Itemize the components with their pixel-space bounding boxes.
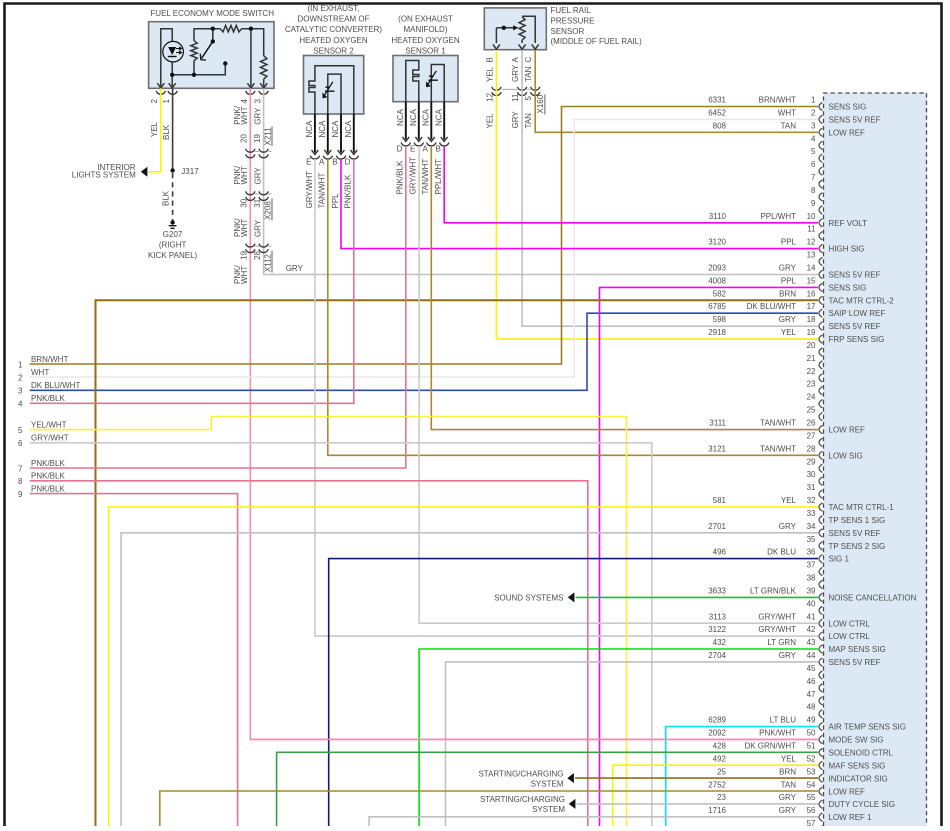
svg-text:GRY/WHT: GRY/WHT <box>31 434 69 443</box>
svg-text:2701: 2701 <box>708 522 726 531</box>
svg-text:LIGHTS SYSTEM: LIGHTS SYSTEM <box>72 171 136 180</box>
svg-text:FUEL RAIL: FUEL RAIL <box>551 6 592 15</box>
svg-text:3120: 3120 <box>708 238 726 247</box>
svg-text:22: 22 <box>807 367 816 376</box>
svg-text:PPL/WHT: PPL/WHT <box>434 159 443 195</box>
svg-text:PNK/BLK: PNK/BLK <box>31 472 65 481</box>
PCM connector C2 box <box>824 93 927 826</box>
svg-text:LT GRN/BLK: LT GRN/BLK <box>750 587 797 596</box>
svg-text:3: 3 <box>811 121 816 130</box>
svg-text:5: 5 <box>811 147 816 156</box>
PCM pin 5 <box>811 147 822 162</box>
PCM pin 22 <box>807 367 823 382</box>
PCM pin 28 <box>708 444 863 460</box>
wire 4008 PPL PCM pin 15 to bottom <box>600 287 819 827</box>
svg-text:31: 31 <box>253 198 262 207</box>
fuel rail pressure sensor box <box>484 8 546 50</box>
PCM pin 57 <box>807 819 823 831</box>
svg-text:X112: X112 <box>263 253 272 272</box>
svg-text:1: 1 <box>18 360 23 369</box>
svg-text:FRP SENS SIG: FRP SENS SIG <box>829 335 885 344</box>
svg-text:NCA: NCA <box>318 120 327 138</box>
wire PNK/BLK connector stub 9 to bottom <box>30 494 238 827</box>
svg-text:(ON EXHAUST: (ON EXHAUST <box>398 15 453 24</box>
PCM pin 56 <box>708 806 872 822</box>
svg-text:4: 4 <box>18 400 23 409</box>
svg-text:20: 20 <box>807 341 816 350</box>
svg-text:PNK/BLK: PNK/BLK <box>31 394 65 403</box>
PCM pin 39 <box>708 587 916 603</box>
svg-text:B: B <box>486 57 495 62</box>
svg-text:X211: X211 <box>263 127 272 146</box>
svg-text:PPL: PPL <box>781 238 797 247</box>
svg-text:54: 54 <box>807 780 816 789</box>
svg-text:GRY: GRY <box>779 651 797 660</box>
wire 1716 GRY PCM pin 56 from bottom <box>369 817 818 827</box>
fuel economy mode switch box <box>149 22 274 89</box>
svg-text:19: 19 <box>807 328 816 337</box>
svg-text:8: 8 <box>811 186 816 195</box>
svg-text:24: 24 <box>807 393 816 402</box>
svg-text:582: 582 <box>713 289 727 298</box>
svg-text:496: 496 <box>713 548 727 557</box>
svg-text:44: 44 <box>807 651 816 660</box>
switch junction dots <box>170 73 174 77</box>
wire 432 LT GRN PCM pin 43 to bottom <box>419 649 818 827</box>
svg-text:NCA: NCA <box>396 108 405 126</box>
svg-text:1: 1 <box>811 96 816 105</box>
svg-text:KICK PANEL): KICK PANEL) <box>148 251 198 260</box>
svg-text:PNK/BLK: PNK/BLK <box>396 160 405 194</box>
svg-text:TAC MTR CTRL-1: TAC MTR CTRL-1 <box>829 503 895 512</box>
svg-text:TAN/WHT: TAN/WHT <box>421 159 430 195</box>
svg-text:SENS 5V REF: SENS 5V REF <box>829 529 881 538</box>
PCM pin 16 <box>713 289 895 305</box>
wire 496 DK BLU PCM pin 36 to bottom <box>329 559 818 827</box>
wire 25 BRN starting/charging to PCM pin 53 <box>575 777 818 779</box>
svg-text:X160: X160 <box>536 94 545 113</box>
svg-text:YEL: YEL <box>486 66 495 82</box>
wire PNK/BLK sensor 1 D to connector stub 7 <box>30 146 406 468</box>
svg-text:BRN/WHT: BRN/WHT <box>759 96 796 105</box>
PCM pin 8 <box>811 186 822 201</box>
wire PNK/WHT 2092 <box>250 88 818 739</box>
svg-text:WHT: WHT <box>240 106 249 124</box>
switch movable contact arm <box>202 41 213 58</box>
svg-text:2: 2 <box>150 99 159 104</box>
wire 6785 DK BLU/WHT PCM pin 17 to connector stub 3 <box>30 313 818 390</box>
svg-text:23: 23 <box>717 793 726 802</box>
svg-text:808: 808 <box>713 121 727 130</box>
PCM pin 6 <box>811 160 822 175</box>
svg-text:7: 7 <box>18 464 23 473</box>
sound systems arrow <box>568 592 575 602</box>
svg-text:2: 2 <box>811 108 816 117</box>
ground G207 <box>170 220 174 224</box>
svg-text:MANIFOLD): MANIFOLD) <box>404 25 448 34</box>
PCM pin 14 <box>708 264 880 280</box>
svg-text:50: 50 <box>807 729 816 738</box>
wire 581 YEL PCM pin 32 from bottom <box>109 507 818 827</box>
svg-text:9: 9 <box>811 199 816 208</box>
svg-text:4: 4 <box>240 99 249 104</box>
wire 2918 YEL fuel rail B to PCM pin 19 <box>496 50 818 339</box>
svg-text:LOW REF: LOW REF <box>829 426 866 435</box>
svg-text:TP SENS 1 SIG: TP SENS 1 SIG <box>829 516 886 525</box>
svg-text:AIR TEMP SENS SIG: AIR TEMP SENS SIG <box>829 723 907 732</box>
wire 6452 WHT PCM pin 2 to connector stub 2 <box>30 119 818 377</box>
PCM pin 29 <box>807 457 823 472</box>
svg-text:PNK/WHT: PNK/WHT <box>759 729 796 738</box>
svg-text:15: 15 <box>807 276 816 285</box>
wire 2704 GRY PCM pin 44 to bottom <box>446 662 819 827</box>
svg-text:SENSOR 1: SENSOR 1 <box>405 47 446 56</box>
svg-text:4008: 4008 <box>708 276 726 285</box>
wire 3111 TAN/WHT sensor 1 A to PCM pin 26 <box>431 146 818 430</box>
svg-text:428: 428 <box>713 742 727 751</box>
svg-text:LOW REF 1: LOW REF 1 <box>829 813 873 822</box>
svg-text:47: 47 <box>807 690 816 699</box>
PCM pin 7 <box>811 173 822 188</box>
svg-text:MAP SENS SIG: MAP SENS SIG <box>829 645 886 654</box>
svg-text:MAF SENS SIG: MAF SENS SIG <box>829 761 886 770</box>
PCM pin 49 <box>708 716 906 732</box>
wire PNK/BLK connector stub 8 to bottom <box>30 481 588 827</box>
svg-text:3633: 3633 <box>708 587 726 596</box>
svg-text:46: 46 <box>807 677 816 686</box>
svg-text:GRY/WHT: GRY/WHT <box>409 157 418 195</box>
svg-text:HEATED OXYGEN: HEATED OXYGEN <box>299 36 368 45</box>
switch pin exit arrows <box>157 83 164 88</box>
wire 2752 TAN PCM pin 54 to bottom left <box>160 791 818 827</box>
PCM pin 38 <box>807 574 823 589</box>
svg-text:SENS 5V REF: SENS 5V REF <box>829 322 881 331</box>
svg-text:NCA: NCA <box>344 120 353 138</box>
svg-text:NCA: NCA <box>434 108 443 126</box>
svg-text:23: 23 <box>807 380 816 389</box>
PCM pin 24 <box>807 393 823 408</box>
sensor 1 variable sensing element <box>426 71 436 87</box>
svg-text:3: 3 <box>18 387 23 396</box>
svg-text:SENS SIG: SENS SIG <box>829 103 867 112</box>
PCM pin 10 <box>709 212 867 228</box>
svg-text:A: A <box>319 157 325 166</box>
svg-text:WHT: WHT <box>240 166 249 184</box>
svg-text:X208: X208 <box>263 201 272 220</box>
svg-text:45: 45 <box>807 664 816 673</box>
svg-text:NCA: NCA <box>331 120 340 138</box>
PCM pin 18 <box>713 315 881 331</box>
svg-text:SOUND SYSTEMS: SOUND SYSTEMS <box>494 594 563 603</box>
svg-text:GRY: GRY <box>286 264 304 273</box>
svg-text:SOLENOID CTRL: SOLENOID CTRL <box>829 749 894 758</box>
svg-text:GRY: GRY <box>254 107 263 125</box>
svg-text:HEATED OXYGEN: HEATED OXYGEN <box>391 36 460 45</box>
heated oxygen sensor 2 box <box>304 56 364 115</box>
svg-text:MODE SW SIG: MODE SW SIG <box>829 736 884 745</box>
svg-text:39: 39 <box>807 587 816 596</box>
LED indicator inside switch <box>163 41 184 62</box>
svg-text:38: 38 <box>807 574 816 583</box>
wire YEL switch to interior lights <box>149 88 161 172</box>
svg-text:SENS 5V REF: SENS 5V REF <box>829 271 881 280</box>
wire 6331 BRN/WHT PCM pin 1 to connector stub 1 <box>30 107 818 365</box>
PCM pin 31 <box>807 483 823 498</box>
PCM pin 15 <box>708 276 866 292</box>
svg-text:18: 18 <box>807 315 816 324</box>
svg-text:2918: 2918 <box>708 328 726 337</box>
sensor 1 pigtail black wires with NCA labels <box>405 102 407 140</box>
wire 492 YEL PCM pin 52 to bottom <box>613 765 818 827</box>
svg-text:SYSTEM: SYSTEM <box>532 805 565 814</box>
svg-text:11: 11 <box>807 225 816 234</box>
svg-text:NOISE CANCELLATION: NOISE CANCELLATION <box>829 594 917 603</box>
svg-text:28: 28 <box>807 444 816 453</box>
interior lights system arrow <box>141 167 148 177</box>
PCM pin 3 <box>713 121 865 137</box>
svg-text:B: B <box>332 157 337 166</box>
PCM pin 37 <box>807 561 823 576</box>
svg-text:STARTING/CHARGING: STARTING/CHARGING <box>480 795 565 804</box>
sensor 2 internal heater loop <box>309 66 354 114</box>
svg-text:432: 432 <box>713 638 727 647</box>
PCM pin 32 <box>713 496 895 512</box>
svg-text:GRY: GRY <box>511 64 520 82</box>
PCM pin 53 <box>717 767 888 783</box>
switch internal wiring <box>161 29 264 86</box>
svg-text:13: 13 <box>807 251 816 260</box>
svg-text:CATALYTIC CONVERTER): CATALYTIC CONVERTER) <box>285 25 383 34</box>
sensor 2 pigtail black wires with NCA labels <box>314 114 316 153</box>
svg-text:17: 17 <box>807 302 816 311</box>
wire GRY/WHT sensor 1 E to PCM pin 41 <box>419 146 818 623</box>
PCM pin 43 <box>713 638 886 654</box>
wire BLK dashed <box>172 173 174 221</box>
svg-text:BRN: BRN <box>779 289 796 298</box>
svg-text:43: 43 <box>807 638 816 647</box>
svg-text:3110: 3110 <box>709 212 727 221</box>
svg-text:A: A <box>511 57 520 63</box>
svg-text:GRY: GRY <box>254 219 263 237</box>
svg-text:21: 21 <box>807 354 816 363</box>
svg-text:TAN/WHT: TAN/WHT <box>760 444 796 453</box>
svg-text:(RIGHT: (RIGHT <box>159 241 187 250</box>
PCM pin 20 <box>807 341 823 356</box>
PCM pin 25 <box>807 406 823 421</box>
wire 428 DK GRN/WHT PCM pin 51 from bottom <box>277 752 818 827</box>
wire 808 TAN fuel rail C to PCM pin 3 <box>535 50 818 132</box>
inline connector X160 <box>492 87 501 90</box>
wire GRY/WHT sensor 2 E to PCM pin 42 <box>315 159 818 636</box>
svg-text:10: 10 <box>807 212 816 221</box>
svg-text:GRY: GRY <box>779 264 797 273</box>
switch resistor R-right <box>261 56 267 79</box>
svg-text:LOW SIG: LOW SIG <box>829 451 863 460</box>
PCM pin 21 <box>807 354 823 369</box>
PCM pin 41 <box>709 612 871 628</box>
svg-text:55: 55 <box>807 793 816 802</box>
PCM pin 13 <box>807 251 823 266</box>
svg-text:5: 5 <box>18 426 23 435</box>
svg-text:3122: 3122 <box>708 625 726 634</box>
PCM pin 26 <box>709 419 865 435</box>
svg-text:6331: 6331 <box>708 96 726 105</box>
PCM pin 17 <box>708 302 885 318</box>
svg-text:DOWNSTREAM OF: DOWNSTREAM OF <box>298 15 370 24</box>
svg-text:SENS 5V REF: SENS 5V REF <box>829 115 881 124</box>
svg-text:WHT: WHT <box>240 266 249 284</box>
svg-text:PPL: PPL <box>781 276 797 285</box>
PCM pin 30 <box>807 470 823 485</box>
svg-text:5: 5 <box>524 96 533 101</box>
svg-text:A: A <box>423 144 429 153</box>
svg-text:492: 492 <box>713 754 727 763</box>
svg-text:J317: J317 <box>181 167 199 176</box>
svg-text:52: 52 <box>807 754 816 763</box>
svg-text:YEL: YEL <box>781 328 797 337</box>
svg-text:GRY: GRY <box>779 806 797 815</box>
wire 3633 LT GRN/BLK sound systems to PCM pin 39 <box>576 596 819 598</box>
svg-text:11: 11 <box>511 93 520 102</box>
svg-text:C: C <box>524 57 533 63</box>
svg-text:GRY/WHT: GRY/WHT <box>758 625 796 634</box>
svg-text:SENS 5V REF: SENS 5V REF <box>829 658 881 667</box>
svg-text:WHT: WHT <box>778 108 796 117</box>
svg-text:YEL: YEL <box>781 496 797 505</box>
svg-text:LOW CTRL: LOW CTRL <box>829 619 871 628</box>
svg-text:(MIDDLE OF FUEL RAIL): (MIDDLE OF FUEL RAIL) <box>551 37 643 46</box>
svg-text:NCA: NCA <box>305 120 314 138</box>
svg-text:SENSOR: SENSOR <box>551 27 585 36</box>
svg-text:LT GRN: LT GRN <box>767 638 796 647</box>
svg-text:28: 28 <box>253 250 262 259</box>
svg-text:GRY: GRY <box>254 167 263 185</box>
wire 2092 PNK/WHT horizontal to PCM pin 50 (already drawn vertical) <box>250 738 818 740</box>
sensor 1 internal heater loop <box>406 61 444 102</box>
PCM pin 12 <box>708 238 864 254</box>
svg-text:48: 48 <box>807 703 816 712</box>
svg-text:6785: 6785 <box>708 302 726 311</box>
PCM pin 54 <box>708 780 865 796</box>
PCM pin 45 <box>807 664 823 679</box>
inline connector X208 on PNK/WHT and GRY wires <box>246 191 255 194</box>
wire GRY 2093 <box>264 88 818 274</box>
svg-text:2092: 2092 <box>708 729 726 738</box>
svg-text:INDICATOR SIG: INDICATOR SIG <box>829 774 888 783</box>
inline connector X112 on PNK/WHT and GRY wires <box>246 244 255 247</box>
svg-text:GRY: GRY <box>779 315 797 324</box>
svg-text:YEL: YEL <box>150 121 159 137</box>
svg-text:PPL: PPL <box>331 193 340 209</box>
fuel rail sensor exit arrows <box>493 44 500 49</box>
switch pin exit connector arcs <box>156 91 165 94</box>
svg-text:25: 25 <box>717 767 726 776</box>
fuel rail sensor potentiometer <box>496 16 535 43</box>
inline connector X211 on PNK/WHT and GRY wires <box>246 149 255 152</box>
svg-text:FUEL ECONOMY MODE SWITCH: FUEL ECONOMY MODE SWITCH <box>150 9 274 18</box>
svg-text:NCA: NCA <box>422 108 431 126</box>
svg-text:12: 12 <box>486 93 495 102</box>
svg-text:GRY: GRY <box>511 111 520 129</box>
wire PNK/BLK sensor 2 D to connector stub 4 <box>30 159 354 403</box>
wire 3121 TAN/WHT sensor 2 A to PCM pin 28 <box>328 159 818 455</box>
wire 598 GRY fuel rail A to PCM pin 18 <box>522 50 818 326</box>
svg-text:37: 37 <box>807 561 816 570</box>
svg-text:(IN EXHAUST,: (IN EXHAUST, <box>307 4 359 13</box>
svg-text:25: 25 <box>807 406 816 415</box>
svg-text:YEL/WHT: YEL/WHT <box>31 420 67 429</box>
PCM pin 23 <box>807 380 823 395</box>
svg-text:NCA: NCA <box>409 108 418 126</box>
svg-text:36: 36 <box>807 548 816 557</box>
switch resistor R-top <box>220 26 241 32</box>
PCM pin 27 <box>807 431 823 446</box>
svg-text:31: 31 <box>807 483 816 492</box>
svg-text:51: 51 <box>807 742 816 751</box>
PCM pin 46 <box>807 677 823 692</box>
svg-text:BRN/WHT: BRN/WHT <box>31 355 68 364</box>
svg-text:56: 56 <box>807 806 816 815</box>
svg-text:9: 9 <box>18 490 23 499</box>
svg-text:GRY: GRY <box>779 793 797 802</box>
starting/charging system arrow 2 <box>569 799 576 809</box>
wire 582 BRN PCM pin 16 to bottom left <box>96 300 819 827</box>
svg-text:LOW REF: LOW REF <box>829 787 866 796</box>
PCM pin 4 <box>811 134 822 149</box>
svg-text:DK BLU/WHT: DK BLU/WHT <box>31 381 80 390</box>
sensor 2 variable sensing element <box>323 82 333 98</box>
switch resistor R-left <box>191 41 197 61</box>
svg-text:16: 16 <box>807 289 816 298</box>
svg-text:STARTING/CHARGING: STARTING/CHARGING <box>478 769 563 778</box>
svg-text:19: 19 <box>253 134 262 143</box>
wire GRY/WHT connector stub 6 to bottom <box>30 443 652 827</box>
svg-text:30: 30 <box>240 198 249 207</box>
svg-text:12: 12 <box>807 238 816 247</box>
svg-text:29: 29 <box>807 457 816 466</box>
svg-text:YEL: YEL <box>486 113 495 129</box>
svg-text:WHT: WHT <box>31 368 49 377</box>
svg-text:41: 41 <box>807 612 816 621</box>
svg-text:8: 8 <box>18 477 23 486</box>
svg-text:49: 49 <box>807 716 816 725</box>
svg-text:581: 581 <box>713 496 727 505</box>
wire BLK switch pin1 <box>172 88 174 170</box>
svg-text:30: 30 <box>807 470 816 479</box>
svg-text:PNK/BLK: PNK/BLK <box>344 174 353 208</box>
svg-text:32: 32 <box>807 496 816 505</box>
svg-text:PRESSURE: PRESSURE <box>551 17 595 26</box>
svg-text:1716: 1716 <box>708 806 726 815</box>
svg-text:TAN/WHT: TAN/WHT <box>760 419 796 428</box>
svg-text:14: 14 <box>807 264 816 273</box>
svg-text:6: 6 <box>18 439 23 448</box>
svg-text:HIGH SIG: HIGH SIG <box>829 245 865 254</box>
PCM pin 2 <box>708 108 880 124</box>
wire 23 GRY starting/charging to PCM pin 55 <box>577 803 819 805</box>
svg-text:PNK/BLK: PNK/BLK <box>31 459 65 468</box>
wire 3110 PPL/WHT sensor 1 B to PCM pin 10 <box>444 146 818 223</box>
svg-text:SYSTEM: SYSTEM <box>531 779 564 788</box>
svg-text:2: 2 <box>18 373 23 382</box>
PCM pin 51 <box>713 742 894 758</box>
splice J317 <box>170 168 174 172</box>
PCM pin 44 <box>708 651 880 667</box>
PCM pin 50 <box>708 729 883 745</box>
svg-text:SENS SIG: SENS SIG <box>829 283 867 292</box>
PCM pin 35 <box>807 535 886 551</box>
svg-text:DUTY CYCLE SIG: DUTY CYCLE SIG <box>829 800 896 809</box>
